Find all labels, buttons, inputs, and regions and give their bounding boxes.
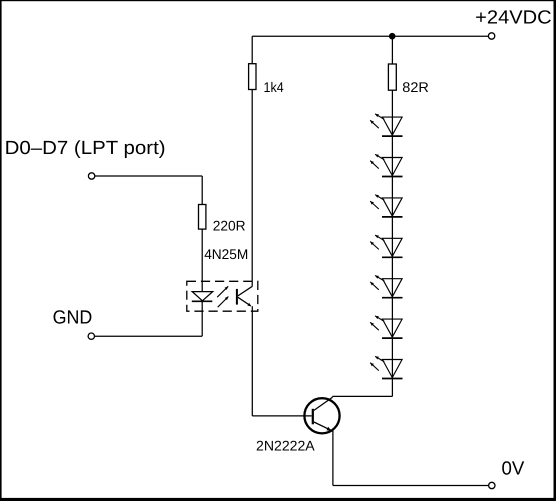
resistor 82R: [388, 64, 396, 90]
LED D6: [370, 316, 402, 338]
wire D0-D7 terminal to 220R: [95, 176, 203, 205]
transistor Q1 2N2222A: [304, 397, 339, 433]
wire 1k4 to optocoupler collector: [251, 90, 253, 287]
label 4N25M: [204, 246, 248, 262]
label 82R: [402, 79, 429, 95]
label +24VDC: [475, 8, 552, 29]
wire 82R to LED chain: [391, 90, 393, 396]
terminal GND: [88, 333, 94, 339]
svg-text:1k4: 1k4: [264, 79, 284, 95]
resistor 220R: [199, 205, 206, 230]
wire 220R to optocoupler LED: [201, 229, 203, 292]
svg-text:2N2222A: 2N2222A: [256, 438, 315, 454]
wire top rail: [252, 35, 488, 37]
wire transistor emitter to 0V: [333, 430, 489, 485]
svg-text:+24VDC: +24VDC: [475, 8, 552, 29]
svg-text:82R: 82R: [402, 79, 429, 95]
LED D4: [370, 235, 402, 257]
label 220R: [213, 217, 246, 233]
optocoupler U1 4N25M dashed box: [187, 281, 258, 311]
label GND: [53, 307, 93, 328]
label D0-D7 (LPT port): [5, 138, 166, 159]
svg-text:D0–D7 (LPT port): D0–D7 (LPT port): [5, 138, 166, 159]
wire optocoupler LED cathode to GND wire: [201, 301, 203, 336]
svg-text:220R: 220R: [213, 217, 246, 233]
terminal +24VDC: [488, 33, 494, 39]
LED D1: [370, 114, 402, 136]
label 2N2222A: [256, 438, 315, 454]
wire optocoupler emitter to transistor base: [252, 306, 311, 416]
LED D5: [370, 276, 402, 298]
optocoupler LED: [192, 286, 229, 307]
terminal D0-D7: [88, 173, 94, 179]
svg-text:4N25M: 4N25M: [204, 246, 248, 262]
wire top rail to 1k4: [251, 36, 253, 64]
terminal 0V: [489, 482, 495, 488]
label 0V: [502, 458, 525, 479]
optocoupler phototransistor: [236, 286, 252, 306]
wire GND terminal to optocoupler: [94, 335, 202, 337]
LED D2: [370, 154, 402, 176]
wire top rail to 82R: [391, 36, 393, 64]
svg-text:GND: GND: [53, 307, 93, 328]
label 1k4: [264, 79, 284, 95]
svg-text:0V: 0V: [502, 458, 525, 479]
LED D7: [370, 356, 402, 378]
LED D3: [370, 195, 402, 217]
wire transistor collector to LED chain: [333, 395, 393, 398]
node junction top rail: [389, 33, 396, 40]
resistor 1k4: [249, 64, 256, 90]
